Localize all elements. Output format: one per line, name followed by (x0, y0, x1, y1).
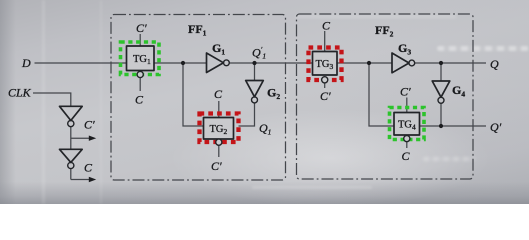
svg-text:D: D (21, 56, 31, 70)
wire G1 to TG3 (229, 62, 312, 64)
wire TG4 bottom C (406, 142, 408, 148)
svg-text:C′: C′ (136, 21, 147, 35)
svg-text:Q′1: Q′1 (252, 45, 266, 61)
wire node C down to TG4 (369, 63, 394, 126)
transmission gate TG1 box (127, 46, 155, 71)
svg-text:C: C (135, 93, 144, 107)
wire TG2 bottom C' (218, 145, 220, 157)
wire TG1 bottom C (139, 78, 141, 91)
wire G3 to Q (415, 62, 486, 64)
inverter G1 (207, 53, 224, 73)
svg-text:C: C (214, 87, 223, 101)
svg-text:C′: C′ (211, 159, 222, 173)
junction node after TG3 (367, 61, 371, 65)
svg-text:Q′: Q′ (490, 120, 502, 134)
wire TG3 bottom C' (324, 83, 326, 88)
wire node D down to G4 (440, 63, 442, 81)
svg-text:C′: C′ (400, 85, 411, 99)
wire node B down to G2 (254, 63, 256, 81)
junction node Q1' (252, 61, 256, 65)
svg-text:C′: C′ (320, 89, 331, 103)
svg-text:C: C (84, 161, 93, 175)
junction node Q (439, 61, 443, 65)
wire C' branch arrow (71, 137, 90, 139)
TG1 control bubble (137, 71, 143, 77)
wire TG3 top C (324, 31, 326, 52)
FF2 dashed box (297, 14, 474, 179)
svg-text:G3: G3 (398, 41, 411, 57)
inverter G4 (432, 81, 450, 97)
svg-text:CLK: CLK (8, 86, 32, 100)
arrowhead C (89, 177, 96, 182)
wire TG4 top C' (406, 98, 408, 113)
wire TG2 top C (218, 101, 220, 118)
wire C branch arrow (71, 179, 90, 181)
inverter G2 (246, 81, 264, 97)
wire G2 out to TG2 (239, 103, 255, 126)
inverter G3 (392, 53, 409, 73)
svg-text:G2: G2 (267, 86, 280, 102)
svg-text:C: C (322, 19, 331, 33)
TG4 green dotted highlight (390, 108, 425, 140)
TG2 control bubble (216, 139, 222, 145)
svg-text:Q1: Q1 (259, 121, 271, 137)
wire node A down to TG2 (183, 63, 205, 126)
wire CLK (33, 93, 71, 106)
TG2 red dotted highlight (200, 114, 239, 143)
svg-text:C: C (402, 149, 411, 163)
svg-text:C′: C′ (84, 118, 95, 132)
transmission gate TG2 box (204, 118, 234, 140)
TG3 control bubble (322, 77, 328, 83)
clock inverter 1 (60, 106, 83, 120)
TG3 red dotted highlight (309, 48, 342, 81)
TG1 green dotted highlight (121, 42, 160, 75)
junction node after TG1 (181, 61, 185, 65)
wire TG4 to Q' (420, 125, 487, 127)
arrowhead C' (89, 136, 96, 141)
clock inverter 2 (60, 149, 83, 162)
svg-text:G1: G1 (212, 41, 225, 57)
wire inverter1 to inverter2 (70, 127, 72, 150)
wire TG1 top C' (139, 34, 141, 46)
transmission gate TG4 box (394, 113, 420, 136)
TG4 control bubble (404, 136, 410, 142)
wire TG1 to G1 (154, 62, 207, 64)
FF1 dashed box (111, 15, 286, 181)
svg-text:G4: G4 (452, 83, 465, 99)
wire inverter2 out (70, 169, 72, 180)
svg-text:Q: Q (490, 57, 499, 71)
svg-text:FF2: FF2 (375, 23, 394, 39)
junction node Q' (439, 124, 443, 128)
wire G4 out to Q' line (440, 103, 442, 126)
svg-text:FF1: FF1 (188, 22, 207, 38)
transmission gate TG3 box (313, 52, 338, 76)
wire TG3 to G3 (337, 62, 392, 64)
wire D input (35, 62, 127, 64)
